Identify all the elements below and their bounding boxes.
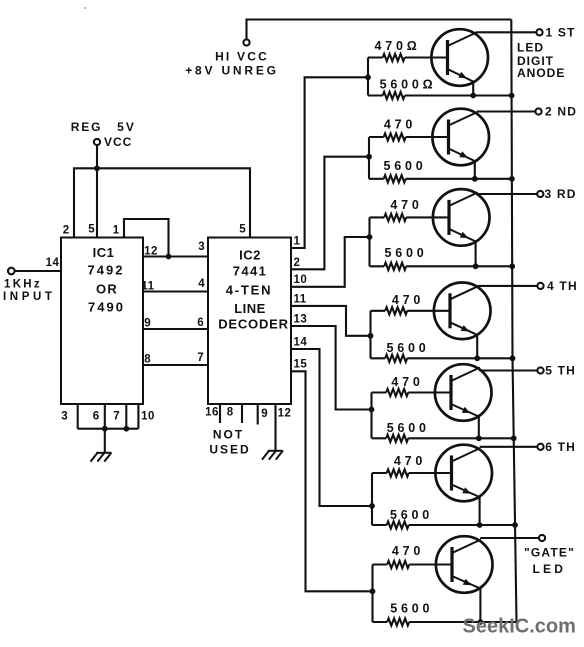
wire: Q2 collector to output — [477, 110, 536, 112]
transistor Q1 (NPN) — [431, 29, 488, 86]
svg-text:+8V UNREG: +8V UNREG — [185, 64, 279, 78]
svg-text:1 ST: 1 ST — [546, 26, 576, 40]
wire: Q4 collector to output — [478, 285, 537, 287]
svg-text:5600: 5600 — [386, 341, 429, 355]
junction: Q5 base node — [369, 407, 375, 413]
resistor 470 (Q4 base) — [385, 307, 407, 314]
svg-text:4: 4 — [198, 278, 205, 290]
junction: Q1 base node — [365, 74, 371, 80]
svg-text:2 ND: 2 ND — [545, 105, 577, 119]
terminal: output 2 ND — [535, 108, 541, 114]
svg-text:9: 9 — [144, 318, 150, 330]
resistor 5600 (Q6) — [387, 521, 409, 528]
junction: Q4 base node — [368, 333, 374, 339]
wire: Q6 resistor left rail — [371, 473, 373, 525]
svg-text:5600: 5600 — [384, 246, 427, 260]
svg-text:15: 15 — [294, 359, 308, 371]
svg-text:2: 2 — [294, 257, 301, 269]
wire: Q4 base line — [371, 310, 451, 312]
wire: Q2 base line — [369, 136, 449, 138]
wire: Q1 emitter line to +8V rail — [368, 94, 512, 96]
svg-text:8: 8 — [227, 407, 234, 419]
svg-text:6: 6 — [93, 411, 99, 423]
svg-text:ANODE: ANODE — [517, 66, 565, 80]
junction: pin7 ground bus — [123, 426, 129, 432]
terminal: HI VCC +8V — [243, 39, 249, 45]
wire: 5V distribution to IC1 pin2 / IC2 pin5 — [74, 168, 250, 237]
wire: IC2 pin 15 to Q7 base node — [291, 371, 373, 591]
wire: IC1 pin11 to IC2 pin4 — [143, 290, 208, 292]
wire: Q3 collector to output — [477, 193, 537, 195]
wire: input to IC1 pin14 — [15, 270, 61, 272]
junction: emitter line 4 to +8V rail — [510, 355, 516, 361]
junction: Q3 base node — [367, 234, 373, 240]
resistor 470 (Q7 base) — [387, 561, 409, 568]
svg-text:USED: USED — [209, 443, 250, 457]
wire: Q3 emitter line to +8V rail — [370, 265, 513, 267]
resistor 5600 (Q2) — [384, 175, 406, 182]
svg-text:3 RD: 3 RD — [545, 187, 577, 201]
junction: Q2 base node — [366, 154, 372, 160]
wire: HI VCC top run — [247, 20, 512, 40]
wire: IC2 pin9 stub — [257, 404, 259, 425]
svg-text:3: 3 — [198, 241, 204, 253]
svg-text:5600: 5600 — [390, 602, 433, 616]
transistor Q4 (NPN) — [434, 283, 491, 340]
junction: emitter line 5 to +8V rail — [511, 435, 517, 441]
wire: Q5 resistor left rail — [370, 393, 372, 439]
junction: Q6 emitter on line — [477, 522, 483, 528]
svg-text:3: 3 — [61, 411, 67, 423]
wire: Q6 collector to output — [480, 446, 538, 448]
junction: emitter line 6 to +8V rail — [512, 522, 518, 528]
wire: IC1 pin3 stub — [77, 404, 79, 429]
svg-text:5: 5 — [88, 224, 95, 236]
junction: Q7 base node — [370, 588, 376, 594]
wire: IC1 pin6 stub — [104, 404, 106, 429]
junction: pin6 ground bus — [102, 426, 108, 432]
wire: Q2 resistor left rail — [368, 137, 370, 179]
svg-text:5V: 5V — [117, 120, 136, 134]
svg-text:NOT: NOT — [213, 428, 244, 442]
wire: IC2 pin 10 to Q3 base node — [291, 237, 370, 287]
wire: Q1 collector to output — [476, 31, 537, 33]
wire: IC2 pin 13 to Q5 base node — [291, 326, 372, 410]
svg-text:6 TH: 6 TH — [545, 440, 576, 454]
transistor Q6 (NPN) — [435, 445, 492, 502]
wire: IC1 pin9 to IC2 pin6 — [143, 328, 208, 330]
wire: Q4 emitter drop — [476, 335, 478, 359]
transistor Q2 (NPN) — [432, 109, 489, 166]
svg-text:7441: 7441 — [233, 264, 268, 279]
wire: IC2 pin16 stub — [219, 404, 221, 423]
svg-text:5600: 5600 — [390, 508, 433, 522]
wire: +8V rail (right vertical) — [511, 20, 516, 623]
svg-text:470Ω: 470Ω — [374, 39, 420, 53]
wire: IC2 pin 14 to Q6 base node — [291, 349, 372, 506]
svg-text:470: 470 — [391, 375, 423, 389]
wire: Q4 emitter line to +8V rail — [371, 357, 513, 359]
svg-text:470: 470 — [392, 544, 424, 558]
wire: Q3 base line — [370, 216, 450, 218]
wire: IC1 ground bus — [78, 428, 139, 430]
svg-text:SeekIC.com: SeekIC.com — [463, 616, 576, 638]
wire: Q1 base line — [368, 56, 448, 58]
svg-text:470: 470 — [392, 293, 424, 307]
wire: Q5 base line — [372, 391, 452, 393]
transistor Q3 (NPN) — [433, 189, 490, 246]
svg-text:INPUT: INPUT — [3, 291, 56, 303]
resistor 5600 (Q4) — [385, 355, 407, 362]
svg-text:1: 1 — [113, 225, 120, 237]
wire: Q6 emitter drop — [479, 497, 481, 525]
wire: Q5 emitter line to +8V rail — [372, 437, 514, 439]
svg-text:11: 11 — [294, 293, 307, 305]
svg-text:5600Ω: 5600Ω — [380, 77, 437, 91]
svg-text:14: 14 — [294, 336, 308, 348]
node: stray speck — [84, 7, 86, 9]
svg-text:5: 5 — [239, 224, 246, 236]
junction: emitter line 3 to +8V rail — [509, 263, 515, 269]
IC U2: IC2 7441 decoder box — [208, 238, 291, 405]
svg-text:"GATE": "GATE" — [524, 546, 575, 560]
svg-text:7492: 7492 — [88, 263, 125, 278]
junction: Q7 emitter on line — [478, 619, 484, 625]
wire: Q7 emitter line to +8V rail — [373, 621, 517, 623]
wire: Q5 emitter drop — [478, 417, 480, 439]
terminal: REG 5V VCC — [94, 139, 100, 145]
svg-text:7490: 7490 — [88, 300, 125, 315]
wire: Q1 resistor left rail — [367, 58, 369, 96]
terminal: output 4 TH — [537, 283, 543, 289]
wire: Q7 emitter drop — [479, 589, 481, 623]
svg-text:10: 10 — [294, 274, 308, 286]
wire: Q2 emitter line to +8V rail — [369, 178, 512, 180]
wire: IC2 pin8 stub — [241, 404, 243, 423]
svg-text:REG: REG — [71, 120, 102, 134]
resistor 470 (Q6 base) — [387, 469, 409, 476]
wire: Q2 emitter drop — [474, 161, 476, 179]
svg-text:8: 8 — [144, 354, 151, 366]
svg-text:10: 10 — [141, 411, 155, 423]
junction: Q1 emitter on line — [470, 93, 476, 99]
svg-text:5600: 5600 — [383, 159, 426, 173]
svg-text:4 TH: 4 TH — [547, 279, 578, 293]
wire: IC1 pin1 to pin12 net — [124, 219, 169, 257]
wire: IC1 pin8 to IC2 pin7 — [143, 364, 208, 366]
terminal: output 5 TH — [537, 367, 543, 373]
junction: Q2 emitter on line — [472, 176, 478, 182]
svg-text:12: 12 — [278, 408, 292, 420]
svg-text:7: 7 — [113, 411, 119, 423]
resistor 5600 (Q3) — [384, 263, 406, 270]
svg-text:IC2: IC2 — [239, 248, 261, 263]
svg-text:7: 7 — [197, 352, 203, 364]
ground: IC2 ground symbol — [262, 451, 283, 460]
resistor 5600 (Q1) — [383, 92, 405, 99]
wire: Q5 collector to output — [479, 369, 537, 371]
junction: emitter line 1 to +8V rail — [509, 93, 515, 99]
wire: Q1 emitter drop — [472, 82, 474, 96]
svg-text:OR: OR — [96, 282, 118, 297]
svg-text:16: 16 — [205, 407, 219, 419]
svg-text:HI VCC: HI VCC — [215, 50, 269, 64]
resistor 5600 (Q5) — [386, 435, 408, 442]
junction: Q5 emitter on line — [476, 435, 482, 441]
junction: emitter line 2 to +8V rail — [509, 176, 515, 182]
svg-text:6: 6 — [197, 317, 203, 329]
wire: IC2 pin 2 to Q2 base node — [291, 157, 369, 270]
svg-text:1KHz: 1KHz — [4, 279, 42, 291]
wire: Q6 base line — [372, 472, 452, 474]
resistor 470 (Q5 base) — [386, 389, 408, 396]
svg-text:5600: 5600 — [387, 421, 430, 435]
wire: IC1 pin12 to IC2 pin3 — [143, 255, 208, 257]
svg-text:1: 1 — [294, 236, 301, 248]
wire: Q6 emitter line to +8V rail — [372, 524, 515, 526]
resistor 470 (Q3 base) — [384, 214, 406, 221]
terminal: output 3 RD — [537, 191, 543, 197]
svg-text:LINE: LINE — [234, 301, 266, 316]
svg-text:LED: LED — [533, 562, 567, 576]
svg-text:470: 470 — [390, 198, 422, 212]
svg-text:13: 13 — [294, 313, 308, 325]
svg-text:IC1: IC1 — [93, 245, 115, 260]
junction: VCC node — [94, 165, 100, 171]
terminal: output 1 ST — [536, 29, 542, 35]
junction: Q3 emitter on line — [473, 263, 479, 269]
wire: 5V to IC1 pin5 — [96, 168, 98, 237]
svg-text:470: 470 — [384, 118, 416, 132]
wire: Q7 resistor left rail — [371, 565, 373, 623]
svg-text:14: 14 — [46, 257, 60, 269]
resistor 470 (Q2 base) — [384, 133, 406, 140]
wire: Q3 emitter drop — [475, 241, 477, 266]
junction: Q6 base node — [369, 503, 375, 509]
resistor 5600 (Q7) — [387, 618, 409, 625]
IC U1: IC1 7492/7490 box — [61, 238, 143, 405]
resistor 470 (Q1 base) — [383, 54, 405, 61]
wire: Q7 base line — [373, 563, 453, 565]
wire: IC2 pin 1 to Q1 base node — [291, 77, 368, 248]
wire: IC2 pin 11 to Q4 base node — [291, 306, 371, 336]
junction: pin1/pin12 net — [166, 254, 172, 260]
svg-text:5 TH: 5 TH — [545, 364, 576, 378]
wire: Q4 resistor left rail — [369, 311, 371, 359]
wire: IC1 pin7 stub — [125, 404, 127, 429]
svg-text:4-TEN: 4-TEN — [226, 283, 273, 298]
wire: Q3 resistor left rail — [368, 217, 370, 266]
wire: IC1 pin10 stub — [137, 404, 139, 429]
svg-text:LED: LED — [517, 41, 544, 55]
terminal: output "GATE" — [539, 535, 545, 541]
ground: IC1 ground symbol — [91, 453, 112, 462]
svg-text:470: 470 — [394, 454, 426, 468]
svg-text:9: 9 — [261, 408, 267, 420]
wire: IC2 pin12 to ground — [274, 404, 276, 451]
terminal: output 6 TH — [537, 444, 543, 450]
junction: Q4 emitter on line — [474, 355, 480, 361]
svg-text:2: 2 — [63, 225, 69, 237]
transistor Q7 (NPN) — [436, 536, 493, 593]
wire: drop to ground 1 — [104, 429, 106, 453]
transistor Q5 (NPN) — [435, 364, 492, 421]
svg-text:VCC: VCC — [104, 135, 132, 149]
terminal: 1KHz input — [8, 268, 15, 275]
wire: Q7 collector to output — [480, 537, 539, 539]
svg-text:DECODER: DECODER — [218, 317, 289, 332]
wire: VCC terminal drop — [96, 146, 98, 169]
